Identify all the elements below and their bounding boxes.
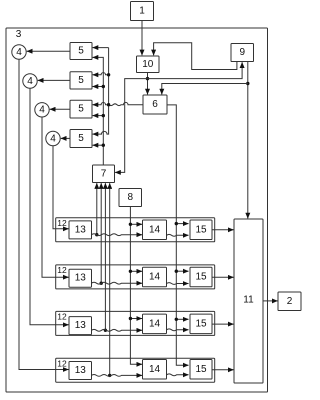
wire 4#1 down to 13 row 4 [19,59,69,369]
junction 9/11 line and 6-feed [246,82,249,85]
wire 5#4 to 4#4 [61,137,70,139]
bus row 2 up into 7 bottom [100,183,102,283]
wire 8-line tap into 14 row 3 [130,318,142,320]
wire 9 to 10 (9 bottom, down-left-up-left into 10 top) [154,43,237,70]
block 14 (row 1) [143,220,167,240]
junction bus row 3 [104,329,107,332]
bus row 4 up into 7 bottom [109,183,111,375]
block 5 (#2) [70,72,92,89]
wire busB tap to 5#2 top (hop over busA) [93,73,109,75]
svg-text:13: 13 [75,365,87,376]
block 14 (row 2) [143,267,167,287]
junction on 10-output at y78.6 [146,77,149,80]
wire 6-line tap into 15 row 3 [176,318,188,320]
svg-text:12: 12 [57,358,67,368]
svg-text:14: 14 [149,224,161,235]
junction 8-line row 2 [129,270,132,273]
svg-text:6: 6 [152,99,158,110]
wire 15 to 11 (row 4) [212,369,234,371]
svg-text:15: 15 [195,364,207,375]
wire 10 to 6 (10 bottom into 6 top-left) [147,73,149,95]
block 15 (row 3) [190,314,212,334]
wire 8 down to rows (feeds all 14 blocks) [130,207,142,365]
wire 13 to 14 (row 2, wavy) [92,282,143,284]
block 13 (row 1) [69,221,92,239]
bus row 1 up into 7 bottom [96,183,98,235]
wire 13 to 14 (row 3, wavy) [92,329,143,331]
svg-text:9: 9 [239,47,245,58]
group box 12 (row 2) [56,265,215,289]
svg-text:5: 5 [78,133,84,144]
block 5 (#4) [70,130,92,148]
wire busA tap to 5#2 bottom [93,86,104,88]
junction busA 5#2 [102,85,105,88]
wire 15 to 11 (row 3) [212,323,234,325]
junction bus row 4 [108,374,111,377]
block 13 (row 3) [69,317,92,335]
wire 8-line tap into 14 row 2 [130,270,142,272]
wire 10 to 9 (branch right, up into 9 bottom) [148,62,243,78]
svg-text:2: 2 [287,296,293,307]
wire 5#3 to 4#3 [50,108,70,110]
svg-text:7: 7 [101,168,107,179]
block 6 [143,95,167,114]
wire 4#2 down to 13 row 3 [30,88,69,325]
svg-text:5: 5 [78,46,84,57]
junction 6-line row 2 [175,270,178,273]
block 14 (row 3) [143,314,167,334]
block 13 (row 4) [69,362,92,380]
wire 13 to 14 (row 4, wavy) [92,375,143,377]
wire 6 right output down to rows (feeds all 15 blocks) [167,105,189,365]
circle terminal 4 (#1) [12,45,26,59]
wire busA tap to 5#4 bottom [93,144,104,146]
wire 9 to 11 (vertical drop) [247,62,249,219]
wire busA tap to 5#3 bottom [93,115,104,117]
svg-text:15: 15 [195,318,207,329]
svg-text:8: 8 [127,192,133,203]
junction busA 5#4 [102,144,105,147]
svg-text:14: 14 [149,318,161,329]
svg-text:15: 15 [195,224,207,235]
wire 10 to 7 (branch left, down, into 7 right side) [115,79,147,173]
svg-text:13: 13 [75,320,87,331]
svg-text:4: 4 [50,133,56,144]
block 10 (controller) [137,56,160,73]
junction bus row 2 [100,282,103,285]
svg-text:11: 11 [243,295,254,306]
wire 4#3 down to 13 row 2 [42,117,69,277]
svg-text:12: 12 [57,312,67,322]
block 11 (output register) [234,219,263,383]
wire 14 to 15 (row 4, wavy) [167,374,189,376]
block 13 (row 2) [69,269,92,287]
block 5 (#3) [70,100,92,118]
svg-text:14: 14 [149,272,161,283]
junction 8-line row 3 [129,317,132,320]
bus B vertical (6 output to 5 top inputs) [93,48,109,135]
junction busB feed [107,103,110,106]
wire 4#4 down to 13 row 1 [53,146,69,229]
circle terminal 4 (#4) [46,131,60,145]
svg-text:3: 3 [16,29,22,40]
svg-text:5: 5 [78,75,84,86]
bus A vertical (7-top to 5 bottom inputs) [93,57,104,165]
block 14 (row 4) [143,360,167,380]
block 5 (#1) [70,43,92,60]
wire 13 to 14 (row 1, wavy) [92,234,143,236]
junction 6-line row 3 [175,318,178,321]
wire 6-line tap into 15 row 1 [176,223,188,225]
block 7 (multiplexer) [93,165,115,183]
svg-text:4: 4 [16,47,22,58]
group box 12 (row 4) [56,358,215,382]
wire 6 left output to busB and 5#3 top (wavy, hops over 10-7 line and busA) [93,102,143,105]
wire 6-line tap into 15 row 2 [176,270,188,272]
block 15 (row 2) [190,267,212,287]
bus row 3 up into 7 bottom [104,183,106,330]
wire 15 to 11 (row 1) [212,229,234,231]
wire branch to 6 top-right [162,84,248,95]
group box 12 (row 1) [56,218,215,242]
circle terminal 4 (#2) [23,74,37,88]
block 15 (row 4) [190,360,212,380]
group box 12 (row 3) [56,311,215,335]
svg-text:14: 14 [149,364,161,375]
wire 14 to 15 (row 3, wavy) [167,329,189,331]
svg-text:12: 12 [57,218,67,228]
block 8 (oscillator) [119,189,142,207]
enclosure box 3 (system boundary) [6,28,268,392]
svg-text:5: 5 [78,104,84,115]
svg-text:15: 15 [195,272,207,283]
svg-text:10: 10 [142,59,154,70]
block 15 (row 1) [190,220,212,240]
svg-text:13: 13 [75,224,87,235]
junction 6-line row 1 [175,222,178,225]
wire 15 to 11 (row 2) [212,276,234,278]
junction 8-line row 1 [129,223,132,226]
svg-text:13: 13 [75,273,87,284]
junction bus row 1 [95,233,98,236]
wire 11 to 2 [263,300,278,302]
wire 1 to 10 [141,21,143,56]
wire 14 to 15 (row 2, wavy) [167,283,189,285]
junction busA 5#3 [102,114,105,117]
wire 8-line tap into 14 row 1 [130,223,142,225]
block 2 (external output) [278,292,301,311]
block 9 [231,44,254,62]
junction busB 5#2 [107,73,110,76]
block 1 (external unit) [131,2,154,21]
svg-text:1: 1 [139,6,145,17]
circle terminal 4 (#3) [35,103,49,117]
svg-text:12: 12 [57,265,67,275]
wire busB elbow into 5#1 top input [93,47,109,49]
svg-text:4: 4 [39,105,45,116]
wire 14 to 15 (row 1, wavy) [167,234,189,236]
svg-text:4: 4 [27,76,33,87]
wire 5#2 to 4#2 [38,79,70,81]
wire 5#1 to 4#1 [27,50,70,52]
